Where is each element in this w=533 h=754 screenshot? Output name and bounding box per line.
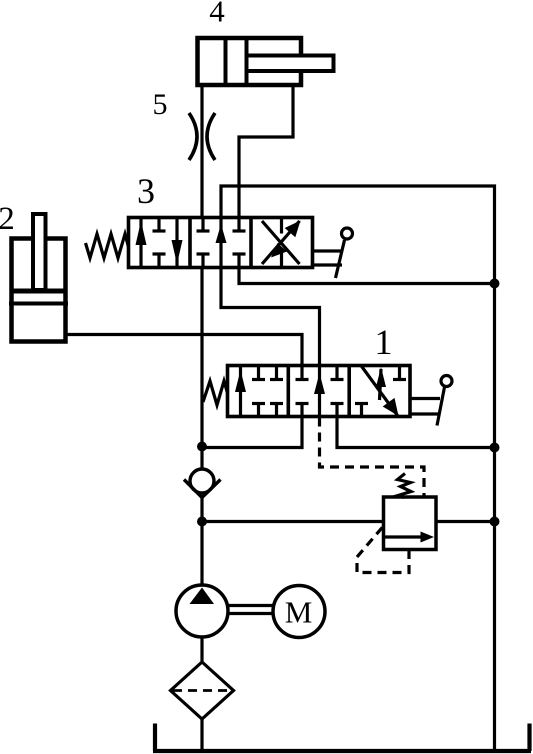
svg-text:5: 5: [153, 88, 168, 121]
svg-text:1: 1: [375, 322, 393, 362]
svg-text:4: 4: [209, 0, 225, 29]
svg-text:3: 3: [137, 171, 155, 211]
svg-text:M: M: [285, 595, 313, 630]
svg-text:2: 2: [0, 201, 15, 237]
